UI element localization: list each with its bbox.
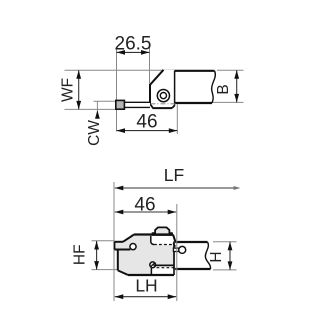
svg-text:CW: CW [86,120,103,146]
svg-text:B: B [215,84,232,94]
svg-text:46: 46 [136,112,157,133]
svg-text:46: 46 [134,195,155,216]
svg-text:WF: WF [60,78,77,102]
svg-text:HF: HF [72,244,89,265]
svg-text:LF: LF [164,165,184,185]
svg-text:26.5: 26.5 [115,34,152,55]
svg-text:H: H [208,251,225,262]
svg-text:LH: LH [135,276,157,296]
